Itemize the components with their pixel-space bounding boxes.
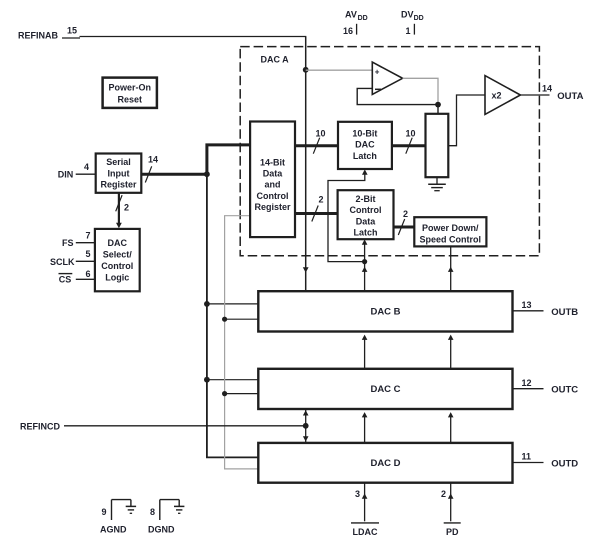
svg-text:Latch: Latch [353, 151, 377, 161]
wire REFINAB vertical to DAC B [303, 37, 309, 292]
pin CS 6 (active low) [59, 269, 95, 284]
wire bus 2 latch to power down [394, 209, 415, 235]
block Power Down / Speed Control [414, 217, 486, 246]
svg-text:Control: Control [350, 205, 382, 215]
svg-text:15: 15 [67, 26, 77, 36]
wire REFINAB horizontal [62, 37, 306, 39]
node REFINCD junction dot [303, 423, 309, 429]
svg-text:11: 11 [522, 452, 532, 462]
svg-text:Serial: Serial [106, 157, 131, 167]
node REFINAB label [18, 26, 77, 41]
svg-text:DAC B: DAC B [370, 306, 400, 317]
svg-text:Register: Register [100, 180, 137, 190]
svg-text:2: 2 [124, 203, 129, 213]
svg-text:Reset: Reset [118, 94, 143, 104]
pin LDAC 3 (active low) [351, 483, 379, 537]
svg-text:13: 13 [522, 300, 532, 310]
ground under resistor string [428, 177, 446, 191]
wire power-down DAC B to DAC C [448, 335, 454, 369]
wire strobe to 2-bit latch [362, 239, 368, 261]
amplifier x2 [485, 76, 520, 115]
svg-text:REFINAB: REFINAB [18, 31, 58, 41]
svg-text:CS: CS [59, 274, 72, 284]
svg-text:10: 10 [316, 129, 326, 139]
wire op-amp feedback [357, 88, 438, 113]
wire op-amp output [403, 78, 438, 103]
svg-text:Latch: Latch [353, 228, 377, 238]
svg-text:SCLK: SCLK [50, 257, 75, 267]
svg-text:Control: Control [257, 191, 289, 201]
pin DIN 4 [58, 162, 96, 180]
svg-text:14: 14 [148, 155, 158, 165]
svg-text:5: 5 [86, 249, 91, 259]
svg-text:DAC A: DAC A [261, 55, 290, 65]
wire power-down DAC C to DAC D [448, 412, 454, 443]
block 2-Bit Control Data Latch [338, 190, 394, 239]
svg-text:9: 9 [102, 507, 107, 517]
svg-text:8: 8 [150, 507, 155, 517]
wire strobe down to DAC B [362, 262, 368, 292]
node junction dot on 14 bus [204, 171, 210, 177]
pin OUTB 13 [513, 300, 579, 318]
svg-text:LDAC: LDAC [353, 527, 378, 537]
svg-text:Power Down/: Power Down/ [422, 223, 479, 233]
pin AVDD 16 [343, 10, 368, 37]
svg-text:DAC: DAC [108, 238, 128, 248]
svg-text:DV: DV [401, 10, 414, 20]
svg-text:10: 10 [406, 129, 416, 139]
svg-text:REFINCD: REFINCD [20, 421, 60, 431]
svg-text:x2: x2 [492, 90, 502, 100]
wire op-amp + input from REFINAB [306, 69, 373, 71]
svg-text:AV: AV [345, 10, 357, 20]
svg-text:and: and [264, 180, 280, 190]
svg-text:12: 12 [522, 378, 532, 388]
wire gray distribution line from 14-bit register to DAC D [225, 216, 259, 469]
svg-text:DAC C: DAC C [370, 384, 400, 395]
resistor string box [426, 114, 449, 177]
svg-text:2: 2 [403, 209, 408, 219]
svg-text:Logic: Logic [105, 273, 129, 283]
svg-text:+: + [375, 68, 380, 77]
node feedback junction dot [435, 102, 441, 108]
wire bus 10 latch to resistor string [392, 129, 426, 154]
svg-text:OUTB: OUTB [551, 307, 578, 318]
svg-text:DIN: DIN [58, 169, 74, 179]
node dot to DAC B [204, 301, 258, 307]
svg-text:16: 16 [343, 26, 353, 36]
pin DVDD 1 [401, 10, 424, 37]
block 14-Bit Data and Control Register [250, 122, 295, 238]
svg-text:FS: FS [62, 238, 74, 248]
pin SCLK 5 [50, 249, 95, 267]
svg-text:DGND: DGND [148, 525, 175, 535]
svg-text:4: 4 [84, 162, 89, 172]
block DAC D [258, 443, 512, 483]
svg-text:Select/: Select/ [103, 250, 133, 260]
svg-text:Data: Data [263, 169, 284, 179]
svg-text:Speed Control: Speed Control [420, 235, 482, 245]
block 10-Bit DAC Latch [338, 122, 392, 169]
pin OUTA 14 [542, 84, 584, 103]
svg-text:Data: Data [356, 216, 377, 226]
svg-text:1: 1 [406, 26, 411, 36]
wire bus 2 serial register to DAC select logic [116, 193, 129, 228]
svg-text:2: 2 [441, 489, 446, 499]
node REFINCD label [20, 421, 60, 431]
svg-text:AGND: AGND [100, 525, 127, 535]
wire REFINCD to DAC C and DAC D [303, 409, 309, 443]
svg-text:OUTA: OUTA [557, 91, 583, 102]
svg-text:Register: Register [254, 202, 291, 212]
node dot gray line to DAC B [222, 317, 258, 322]
node dot gray line to DAC C [222, 391, 258, 396]
wire latch strobe to 10-bit latch [328, 169, 368, 261]
svg-text:14-Bit: 14-Bit [260, 157, 285, 167]
pin DGND 8 with ground [148, 500, 184, 535]
svg-text:14: 14 [542, 84, 552, 94]
block DAC Select/Control Logic [95, 229, 140, 291]
block DAC B [258, 291, 512, 331]
svg-text:OUTC: OUTC [551, 385, 578, 396]
svg-text:6: 6 [86, 269, 91, 279]
svg-text:DAC D: DAC D [370, 458, 400, 469]
pin PD 2 (active low) [441, 483, 461, 537]
pin OUTD 11 [513, 452, 579, 470]
wire strobe DAC C to DAC D [362, 412, 368, 443]
wire bus 10 register to 10-bit latch [295, 129, 338, 154]
wire strobe DAC B to DAC C [362, 335, 368, 369]
svg-text:DD: DD [358, 15, 368, 22]
node strobe junction dot [362, 259, 367, 264]
block DAC C [258, 369, 512, 409]
pin FS 7 [62, 231, 95, 249]
svg-text:2: 2 [319, 194, 324, 204]
svg-text:PD: PD [446, 527, 459, 537]
svg-text:2-Bit: 2-Bit [356, 194, 376, 204]
wire power-down control down to DAC B [448, 246, 454, 291]
svg-text:Power-On: Power-On [109, 83, 152, 93]
svg-text:OUTD: OUTD [551, 459, 578, 470]
block Serial Input Register [96, 154, 142, 193]
wire resistor tap to x2 amp [448, 95, 485, 146]
svg-text:3: 3 [355, 489, 360, 499]
node dot to DAC C [204, 377, 258, 383]
block Power-On Reset [103, 78, 157, 108]
svg-text:DD: DD [414, 15, 424, 22]
svg-text:DAC: DAC [355, 140, 375, 150]
block DAC A dashed boundary [240, 47, 539, 256]
pin OUTC 12 [513, 378, 579, 396]
wire bus 2 register to 2-bit latch [295, 194, 338, 221]
node junction dot REFINAB to op-amp [303, 67, 309, 73]
wire bus 14 serial register to 14-bit register [141, 143, 250, 182]
svg-text:Input: Input [108, 168, 130, 178]
wire black distribution line down to DAC D [206, 174, 258, 457]
pin AGND 9 with ground [100, 500, 136, 535]
svg-text:Control: Control [101, 261, 133, 271]
svg-text:10-Bit: 10-Bit [352, 128, 377, 138]
svg-text:7: 7 [86, 231, 91, 241]
op-amp U1 buffer [372, 62, 402, 94]
wire OUTA [520, 94, 549, 96]
wire REFINCD [64, 425, 306, 427]
